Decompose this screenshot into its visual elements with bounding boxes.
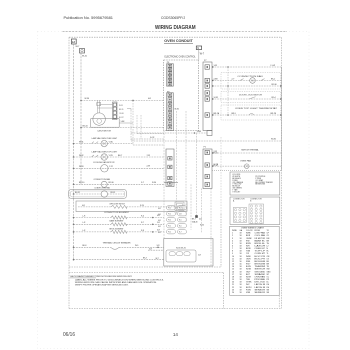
svg-text:OR-4: OR-4: [271, 97, 276, 99]
svg-text:OVEN TOP LIGHT THERMOSTAT: OVEN TOP LIGHT THERMOSTAT: [235, 107, 278, 110]
svg-text:BK-30: BK-30: [79, 182, 84, 184]
svg-text:WIRING ERRORS CAN CAUSE IMPROP: WIRING ERRORS CAN CAUSE IMPROPER AND DAN…: [75, 281, 157, 284]
svg-text:4-R: 4-R: [158, 220, 162, 222]
svg-text:VERIFY PROPER OPERATION AFTER: VERIFY PROPER OPERATION AFTER SERVICING …: [75, 284, 129, 287]
svg-text:OR-31: OR-31: [110, 192, 115, 194]
svg-text:OVEN WIRING CHART: OVEN WIRING CHART: [241, 226, 265, 229]
svg-text:4-R: 4-R: [158, 214, 162, 216]
svg-text:3-OR: 3-OR: [214, 97, 219, 99]
svg-text:7-W: 7-W: [147, 155, 151, 157]
svg-text:CONV FAN: CONV FAN: [255, 232, 266, 235]
svg-text:24: 24: [232, 292, 234, 294]
svg-text:BR BROWN: BR BROWN: [255, 184, 265, 186]
svg-text:R-7: R-7: [179, 232, 182, 234]
svg-text:COOL FAN: COOL FAN: [255, 234, 266, 237]
svg-text:OVEN CONDUIT: OVEN CONDUIT: [164, 38, 193, 43]
svg-text:4-R: 4-R: [179, 214, 182, 216]
svg-text:W-32: W-32: [79, 155, 83, 157]
svg-text:W-35: W-35: [119, 105, 123, 107]
svg-text:CONNECTOR: CONNECTOR: [250, 198, 262, 200]
svg-text:THERMAL CIRCUIT BREAKER: THERMAL CIRCUIT BREAKER: [103, 241, 132, 244]
svg-text:WIRING DIAGRAM: WIRING DIAGRAM: [155, 25, 196, 31]
svg-text:BK-7: BK-7: [192, 219, 196, 221]
svg-text:Publication No. 5995679581: Publication No. 5995679581: [64, 15, 114, 20]
svg-text:P12: P12: [168, 214, 171, 216]
svg-text:P1: P1: [204, 147, 207, 149]
svg-text:4-R: 4-R: [148, 98, 152, 100]
svg-text:LATCH MOTOR: LATCH MOTOR: [97, 129, 111, 132]
svg-text:CGDS3065PF/J: CGDS3065PF/J: [161, 15, 185, 20]
svg-text:SENSOR: SENSOR: [255, 292, 266, 294]
svg-text:R-6: R-6: [141, 215, 144, 217]
svg-text:L-R: L-R: [82, 215, 86, 217]
svg-text:BK-7: BK-7: [143, 258, 147, 260]
svg-text:BK-2: BK-2: [271, 78, 275, 80]
svg-text:W-7A: W-7A: [271, 138, 276, 141]
svg-text:1-BK: 1-BK: [197, 131, 202, 133]
svg-text:L1-W: L1-W: [271, 65, 276, 67]
svg-text:P12: P12: [168, 208, 171, 210]
svg-text:COOLING FAN MOTOR: COOLING FAN MOTOR: [93, 161, 115, 164]
svg-text:R-4: R-4: [179, 208, 182, 210]
svg-text:BK-7: BK-7: [118, 155, 122, 157]
svg-text:V VIOLET: V VIOLET: [232, 192, 241, 194]
svg-text:BK-35: BK-35: [119, 109, 124, 111]
svg-text:CONNECTOR: CONNECTOR: [233, 198, 245, 200]
svg-text:4-R: 4-R: [158, 226, 162, 228]
svg-text:M: M: [252, 81, 254, 83]
svg-text:1-W: 1-W: [214, 65, 218, 67]
svg-text:LAMP HALOGEN TOP LIGHT: LAMP HALOGEN TOP LIGHT: [92, 150, 118, 153]
svg-text:GA: GA: [240, 229, 243, 232]
svg-text:CONVECTION FAN: CONVECTION FAN: [238, 75, 264, 78]
svg-text:BR-7B: BR-7B: [271, 113, 277, 115]
svg-text:LATCH M: LATCH M: [255, 286, 266, 289]
svg-text:W-7: W-7: [156, 258, 159, 260]
svg-text:B: B: [250, 201, 252, 203]
svg-text:W-36: W-36: [85, 98, 89, 100]
svg-text:W-10: W-10: [82, 56, 88, 58]
svg-text:4-R: 4-R: [199, 219, 203, 221]
svg-text:4-R: 4-R: [158, 232, 162, 234]
svg-text:W-7: W-7: [76, 46, 81, 48]
svg-text:LAMP HALOGEN OVEN LIGHT: LAMP HALOGEN OVEN LIGHT: [92, 137, 118, 140]
svg-text:2-W: 2-W: [214, 151, 218, 153]
svg-text:Y-7A: Y-7A: [109, 140, 114, 143]
svg-text:W-9: W-9: [135, 245, 138, 247]
svg-text:P7: P7: [204, 60, 207, 62]
svg-text:2-W: 2-W: [147, 166, 151, 168]
svg-text:CONVECTION FAN: CONVECTION FAN: [93, 178, 110, 181]
svg-text:OVEN FAN: OVEN FAN: [240, 159, 252, 162]
svg-text:BK-34: BK-34: [83, 126, 88, 128]
svg-text:OVEN LIGHT SWITCH: OVEN LIGHT SWITCH: [109, 203, 125, 205]
svg-text:R-30: R-30: [152, 182, 156, 184]
svg-text:SN: SN: [267, 292, 270, 294]
svg-text:R-7: R-7: [141, 222, 144, 224]
svg-text:R-5: R-5: [179, 220, 182, 222]
svg-text:CONVECTION ELEMENT: CONVECTION ELEMENT: [104, 212, 130, 214]
svg-text:Y-7B: Y-7B: [109, 155, 114, 157]
svg-text:LATCH M: LATCH M: [255, 283, 266, 286]
svg-text:2-R: 2-R: [198, 254, 202, 256]
svg-text:LATCH: LATCH: [255, 245, 267, 248]
svg-text:SWITCH THERMAL: SWITCH THERMAL: [241, 149, 259, 152]
svg-text:5-R: 5-R: [157, 222, 161, 224]
svg-text:2-BK: 2-BK: [214, 78, 219, 80]
svg-text:R-20: R-20: [140, 205, 144, 207]
svg-text:W-7: W-7: [200, 53, 205, 55]
svg-text:P12: P12: [168, 232, 171, 234]
svg-text:BR-5: BR-5: [232, 113, 236, 115]
svg-text:W-7B: W-7B: [214, 164, 219, 166]
svg-text:18: 18: [240, 292, 242, 294]
svg-text:W-30: W-30: [200, 225, 204, 227]
svg-text:X-7: X-7: [141, 182, 144, 184]
svg-text:L-R: L-R: [82, 230, 86, 232]
svg-text:BR-7A: BR-7A: [214, 112, 220, 115]
svg-text:4-R: 4-R: [82, 205, 86, 207]
svg-text:V/BK: V/BK: [246, 292, 251, 294]
svg-text:W-31: W-31: [79, 141, 83, 143]
svg-text:30A-30: 30A-30: [192, 221, 198, 224]
svg-text:BAKE ELEMENT: BAKE ELEMENT: [110, 220, 125, 223]
svg-text:4-R: 4-R: [158, 208, 162, 210]
svg-text:OVN FAN: OVN FAN: [255, 275, 266, 278]
svg-text:DOOR LOCK MOTOR: DOOR LOCK MOTOR: [239, 94, 263, 96]
svg-text:BAKE EL: BAKE EL: [255, 239, 266, 242]
svg-text:BK-31: BK-31: [75, 192, 80, 194]
svg-text:OR-36: OR-36: [119, 113, 124, 115]
svg-text:BU-37: BU-37: [119, 117, 124, 119]
svg-text:CONVECTION FAN: CONVECTION FAN: [94, 187, 110, 190]
svg-text:14: 14: [173, 332, 179, 337]
svg-text:P12: P12: [168, 226, 171, 228]
svg-text:W-33: W-33: [79, 166, 83, 168]
svg-text:BK-8: BK-8: [82, 245, 86, 247]
svg-text:P12: P12: [168, 220, 171, 222]
svg-text:3-OR: 3-OR: [150, 137, 155, 139]
svg-text:OR-30: OR-30: [271, 84, 277, 86]
svg-text:L-R: L-R: [82, 222, 86, 224]
svg-text:R-6: R-6: [179, 226, 182, 228]
svg-text:06/16: 06/16: [63, 332, 75, 338]
svg-text:W-36 BK-36: W-36 BK-36: [176, 248, 186, 250]
svg-text:LABEL ALL WIRES PRIOR TO DISCO: LABEL ALL WIRES PRIOR TO DISCONNECTION W…: [75, 278, 165, 281]
svg-text:ELECTRONIC OVEN CONTROL: ELECTRONIC OVEN CONTROL: [165, 56, 197, 59]
svg-text:SPARK: SPARK: [255, 273, 267, 276]
svg-text:2-Y: 2-Y: [232, 78, 236, 80]
svg-text:Y-7C: Y-7C: [109, 166, 114, 168]
svg-text:OR-30: OR-30: [108, 182, 114, 184]
svg-text:W-36: W-36: [175, 109, 179, 111]
svg-text:R-8: R-8: [141, 230, 144, 232]
